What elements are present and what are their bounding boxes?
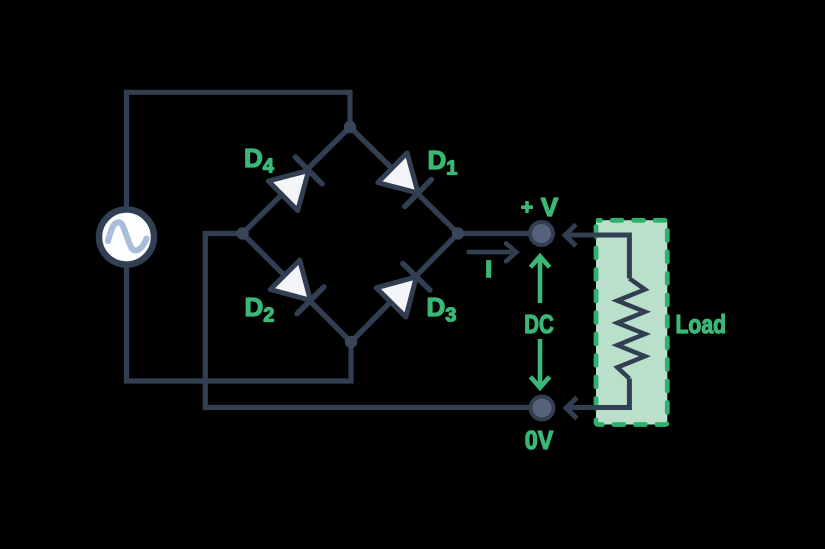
node left [236, 227, 248, 239]
diode D2 [270, 260, 324, 314]
wire load bottom connection [566, 379, 629, 408]
resistor load zigzag [617, 278, 645, 378]
diode D4 [268, 157, 322, 211]
arrow into +V [565, 225, 576, 246]
load box [596, 220, 667, 424]
svg-text:D4: D4 [244, 143, 275, 178]
wire left node to 0V [205, 234, 542, 408]
svg-text:D1: D1 [428, 145, 458, 180]
terminal +V [528, 220, 555, 247]
svg-text:Load: Load [676, 309, 727, 339]
svg-text:DC: DC [524, 309, 554, 339]
diode D1 [378, 153, 432, 207]
node right [452, 227, 464, 239]
svg-text:V: V [541, 192, 559, 222]
wire right node to +V [458, 231, 542, 236]
terminal 0V [529, 395, 556, 422]
wire bridge diamond [243, 127, 459, 342]
AC source [99, 210, 154, 265]
wire AC top loop [127, 92, 351, 237]
arrow into 0V [566, 398, 577, 419]
wire AC bottom loop [127, 237, 352, 381]
node top [344, 121, 356, 133]
svg-text:D3: D3 [427, 292, 457, 327]
svg-text:+: + [521, 196, 533, 219]
arrow current I [469, 250, 510, 255]
wire load top connection [566, 235, 629, 278]
node bottom [345, 336, 357, 348]
label I [486, 260, 491, 278]
arrow DC down [538, 339, 543, 387]
svg-text:D2: D2 [245, 292, 275, 327]
arrow DC up [538, 258, 543, 304]
diode D3 [376, 264, 430, 318]
svg-text:0V: 0V [525, 425, 554, 455]
